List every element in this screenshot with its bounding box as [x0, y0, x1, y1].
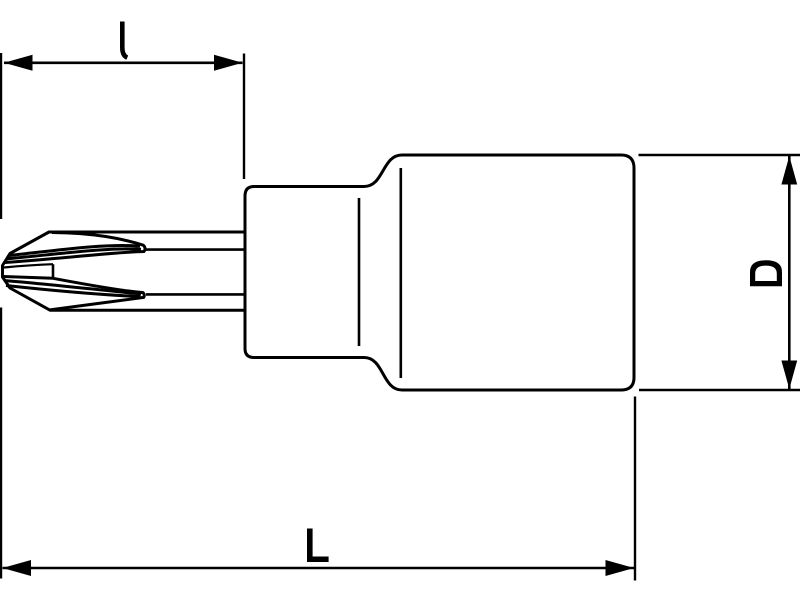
- center facet vertical edge: [52, 264, 55, 278]
- body interior line: [399, 168, 402, 378]
- socket body outline (collar + main body with fillets): [245, 155, 634, 390]
- arrowhead L right: [606, 560, 635, 576]
- label L: [307, 529, 329, 563]
- lower leaf inner curve 1: [4, 281, 141, 295]
- arrowhead D bottom: [781, 361, 797, 390]
- extension line right of l dimension: [243, 54, 245, 180]
- center facet upper edge: [4, 264, 53, 267]
- arrowhead L left: [3, 560, 32, 576]
- dimension line D: [788, 156, 791, 389]
- lower flute leaf (facet lower edge, top curve, rounded end, bottom boundary): [4, 277, 145, 310]
- dimension line l: [4, 61, 243, 64]
- upper leaf inner curve 1: [10, 245, 141, 255]
- collar interior line: [358, 198, 361, 346]
- extension lines of D dimension: [639, 155, 800, 390]
- arrowhead l right: [214, 55, 243, 71]
- dimension line L: [3, 567, 635, 570]
- extension line left (shared by l and L dimensions): [0, 53, 2, 579]
- label D (rotated): [750, 260, 782, 286]
- arrowhead l left: [4, 55, 33, 71]
- upper leaf inner curve 2: [7, 249, 141, 259]
- shaft lower hex edge line: [146, 293, 245, 296]
- upper flute leaf (top boundary, rounded end, lower return curve): [5, 233, 146, 263]
- bit silhouette (tip point and shaft outline): [3, 232, 246, 310]
- lower leaf inner curve 2: [6, 286, 141, 297]
- label l: [122, 22, 127, 58]
- arrowhead D top: [781, 156, 797, 185]
- shaft upper hex edge line: [146, 248, 245, 251]
- extension line right of L dimension: [634, 397, 636, 581]
